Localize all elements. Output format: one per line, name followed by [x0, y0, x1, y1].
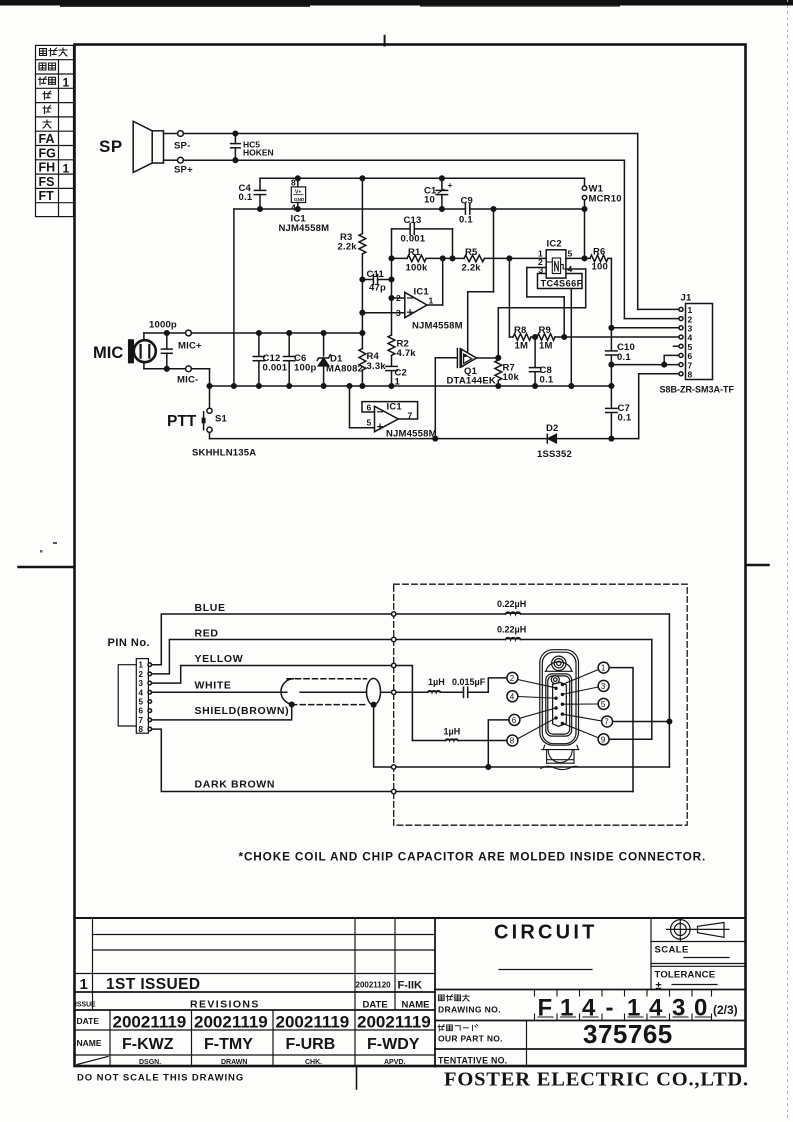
svg-text:-: -	[606, 995, 614, 1022]
fold tick left edge	[19, 566, 75, 568]
svg-text:DARK BROWN: DARK BROWN	[195, 779, 276, 791]
capacitor C12	[253, 333, 288, 386]
svg-text:20021119: 20021119	[357, 1013, 431, 1032]
microphone MIC	[93, 333, 156, 369]
wire PTT line y438.6	[210, 438, 639, 440]
node circle 6	[509, 714, 520, 725]
wire DARK BROWN	[152, 729, 633, 794]
approvals row	[139, 1059, 405, 1066]
resistor R7	[495, 360, 520, 386]
svg-text:F-WDY: F-WDY	[367, 1036, 420, 1053]
J1 pin 7	[611, 360, 692, 370]
wire BLUE	[152, 602, 670, 665]
tolerance cell	[435, 970, 746, 993]
terminal MIC-	[144, 366, 198, 386]
diagonal slash	[77, 1057, 108, 1065]
svg-text:0.1: 0.1	[617, 352, 631, 363]
capacitor HC5 HOKEN	[231, 131, 274, 162]
our part no row	[435, 1019, 746, 1067]
svg-text:C13: C13	[404, 215, 422, 226]
svg-text:20021120: 20021120	[356, 979, 391, 989]
J1 pin 5 stub	[674, 342, 693, 352]
pin 5 terminal	[148, 700, 152, 704]
projection symbol	[651, 918, 746, 942]
node circle 9	[598, 734, 609, 745]
svg-text:MIC+: MIC+	[178, 341, 202, 352]
svg-text:3: 3	[539, 265, 544, 275]
jumper W1 MCR10	[582, 178, 621, 258]
revision row 1ST ISSUED	[80, 976, 422, 993]
svg-text:5: 5	[568, 249, 573, 259]
resistor R9	[531, 325, 679, 352]
svg-text:(2/3): (2/3)	[713, 1003, 738, 1017]
svg-text:1M: 1M	[515, 341, 529, 352]
svg-text:NJM4558M: NJM4558M	[386, 429, 437, 440]
wire MIC- down to rail	[191, 369, 209, 408]
svg-text:MCR10: MCR10	[589, 194, 622, 205]
terminal SP-	[164, 131, 191, 152]
svg-text:PIN No.: PIN No.	[108, 637, 151, 649]
svg-text:F-URB: F-URB	[286, 1036, 336, 1053]
wire SP- line to J1 pin1 drop	[184, 133, 638, 135]
connector pin box	[118, 659, 148, 735]
leader lines circles to pins	[518, 670, 602, 739]
svg-text:4: 4	[139, 688, 144, 697]
svg-text:D2: D2	[546, 423, 559, 434]
svg-text:0.001: 0.001	[401, 234, 426, 245]
resistor R3	[338, 178, 366, 279]
junction dots V+ rail	[296, 176, 301, 181]
resistor R8	[509, 258, 531, 351]
svg-text:10k: 10k	[503, 372, 520, 383]
svg-text:RED: RED	[195, 628, 219, 640]
connector J1	[660, 293, 735, 395]
svg-text:3: 3	[396, 308, 401, 318]
svg-text:SHIELD(BROWN): SHIELD(BROWN)	[195, 705, 290, 717]
svg-text:R9: R9	[539, 325, 552, 336]
scan dotted line right edge	[787, 0, 789, 1122]
cable shield dashed	[281, 678, 381, 704]
svg-text:4: 4	[568, 264, 573, 274]
svg-text:100p: 100p	[294, 363, 316, 374]
pin 4 terminal	[148, 691, 152, 695]
svg-text:6: 6	[139, 707, 144, 716]
svg-text:NJM4558M: NJM4558M	[279, 223, 330, 234]
svg-text:V+: V+	[295, 190, 301, 196]
switch S1 PTT	[167, 408, 256, 458]
svg-text:FG: FG	[39, 146, 56, 160]
labels row	[75, 999, 429, 1011]
resistor R4	[359, 349, 386, 387]
wire circle1 to dark brown	[609, 668, 633, 792]
TITLEBLOCK	[75, 918, 749, 1091]
svg-text:SKHHLN135A: SKHHLN135A	[192, 448, 256, 459]
svg-text:1: 1	[63, 75, 70, 89]
wire R1 to R5	[426, 257, 464, 259]
SCHEMATIC_UPPER	[93, 121, 734, 460]
svg-text:20021119: 20021119	[113, 1013, 187, 1032]
svg-text:7: 7	[408, 411, 413, 421]
transistor Q1 DTA144EK	[435, 349, 498, 439]
svg-text:FH: FH	[39, 161, 56, 175]
svg-text:REVISIONS: REVISIONS	[190, 999, 260, 1011]
wire red drop to circle9	[609, 640, 652, 740]
svg-text:1µH: 1µH	[428, 677, 445, 687]
svg-text:20021119: 20021119	[276, 1013, 350, 1032]
speaker SP	[99, 121, 164, 172]
svg-text:PTT: PTT	[167, 413, 197, 430]
svg-text:TOLERANCE: TOLERANCE	[655, 970, 716, 981]
wire TC4S66F box to rail	[570, 289, 572, 387]
svg-text:NAME: NAME	[77, 1038, 102, 1048]
svg-text:R6: R6	[593, 247, 606, 258]
svg-text:6: 6	[512, 716, 517, 725]
svg-text:1: 1	[80, 976, 88, 993]
svg-text:9: 9	[601, 735, 606, 744]
svg-text:3: 3	[139, 679, 144, 688]
wire net rail209 to Q1 top	[468, 209, 494, 353]
svg-text:1: 1	[429, 296, 434, 306]
margin specks	[53, 542, 57, 544]
node circle 4	[507, 691, 518, 702]
wire GND rail y209 with C9 gap	[234, 208, 466, 210]
svg-text:SP: SP	[99, 137, 123, 156]
op-amp IC1 (a)	[360, 258, 463, 331]
resistor R1	[392, 247, 428, 274]
capacitor C4	[239, 178, 266, 209]
svg-text:0.001: 0.001	[263, 363, 288, 374]
svg-text:100k: 100k	[406, 263, 428, 274]
drawing no row	[435, 990, 746, 1022]
svg-text:R5: R5	[465, 247, 478, 258]
J1 pin 6	[662, 351, 693, 367]
svg-text:R8: R8	[514, 325, 527, 336]
scale cell	[651, 945, 746, 967]
svg-text:TC4S66F: TC4S66F	[541, 279, 583, 289]
node circle 8	[507, 735, 518, 746]
choke 0.22uH (red)	[497, 625, 526, 640]
svg-text:5: 5	[139, 698, 144, 707]
capacitor C1 electrolytic	[424, 178, 453, 209]
svg-text:GND: GND	[294, 197, 305, 202]
svg-text:J1: J1	[681, 293, 692, 304]
terminal SP+	[164, 157, 194, 175]
svg-text:MIC-: MIC-	[177, 375, 198, 386]
wire vertical x233.9 rail-to-rail	[233, 209, 235, 386]
plug pins	[554, 683, 564, 725]
svg-text:DRAWN: DRAWN	[221, 1059, 247, 1066]
svg-text:1: 1	[601, 664, 606, 673]
node circle 2	[507, 672, 518, 683]
svg-text:8: 8	[688, 370, 693, 380]
svg-text:F-TMY: F-TMY	[204, 1036, 253, 1053]
svg-text:ISSUE: ISSUE	[75, 999, 96, 1008]
dashed box molded connector	[394, 584, 688, 825]
node circle 5	[598, 698, 609, 709]
svg-text:NJM4558M: NJM4558M	[412, 321, 463, 332]
wire MIC+ rail	[191, 332, 362, 334]
svg-text:5: 5	[601, 700, 606, 709]
svg-text:1: 1	[139, 661, 144, 670]
J1 pin 1	[638, 134, 693, 316]
svg-text:SP-: SP-	[174, 141, 190, 152]
svg-text:4: 4	[510, 692, 515, 701]
wire inverting node x391.5	[391, 229, 393, 335]
pin 2 terminal	[148, 672, 152, 676]
J1 pin 3	[611, 324, 692, 334]
svg-text:2.2k: 2.2k	[338, 242, 358, 253]
svg-text:YELLOW: YELLOW	[195, 653, 244, 665]
capacitor C13	[392, 215, 453, 258]
svg-text:0.1: 0.1	[459, 215, 473, 226]
choke 1uH (white)	[428, 677, 464, 692]
svg-text:SCALE: SCALE	[655, 945, 689, 956]
svg-text:DATE: DATE	[77, 1016, 100, 1026]
svg-text:0.1: 0.1	[239, 192, 253, 203]
capacitor C11	[360, 269, 394, 294]
svg-text:+: +	[448, 180, 453, 190]
plug boot	[541, 745, 579, 769]
resistor R5	[462, 247, 485, 274]
op-amp power block IC1 pins 8/4	[279, 178, 330, 235]
svg-text:0.22µH: 0.22µH	[497, 599, 526, 609]
wire blue drop to circle7 line	[613, 614, 672, 767]
capacitor C9	[459, 196, 473, 226]
svg-text:DO NOT SCALE THIS DRAWING: DO NOT SCALE THIS DRAWING	[77, 1073, 244, 1084]
capacitor C6	[284, 333, 317, 386]
svg-text:2: 2	[139, 670, 144, 679]
svg-text:1µH: 1µH	[444, 727, 461, 737]
wire RED	[152, 628, 652, 674]
svg-text:1SS352: 1SS352	[537, 449, 572, 460]
date row	[77, 1013, 431, 1032]
wire IC2 pin5 to R6	[566, 257, 590, 259]
capacitor 0.015uF	[452, 677, 507, 697]
svg-text:FA: FA	[39, 132, 55, 146]
junction dots R1-R5 line	[389, 256, 394, 261]
J1 pin 2	[624, 160, 692, 324]
revisions grid	[75, 918, 436, 1067]
CIRCUIT cell	[494, 918, 651, 990]
capacitor C2	[386, 366, 407, 387]
svg-text:TENTATIVE NO.: TENTATIVE NO.	[438, 1056, 508, 1066]
svg-text:8: 8	[139, 725, 144, 734]
svg-text:APVD.: APVD.	[384, 1059, 405, 1066]
svg-text:1M: 1M	[539, 341, 553, 352]
choke 1uH (yellow branch)	[412, 727, 507, 741]
wire R6 down C10/C7 column x611.4	[609, 258, 614, 438]
svg-text:F-IIK: F-IIK	[398, 980, 422, 992]
svg-text:DTA144EK: DTA144EK	[447, 376, 496, 387]
svg-text:CIRCUIT: CIRCUIT	[494, 922, 598, 944]
capacitor C10	[606, 342, 635, 363]
node circle 7	[602, 716, 613, 727]
capacitor C8	[529, 337, 553, 386]
wire SHIELD(BROWN)	[152, 702, 670, 769]
node circle 3	[598, 680, 609, 691]
svg-text:375765: 375765	[583, 1019, 673, 1049]
wire circle6 to shield line	[488, 720, 509, 767]
SCHEMATIC_LOWER	[108, 584, 707, 863]
diode D1 zener	[317, 333, 363, 386]
node circle 1	[598, 662, 609, 673]
title block top edge	[75, 917, 746, 919]
svg-text:FS: FS	[39, 175, 55, 189]
svg-text:0.1: 0.1	[540, 375, 554, 386]
svg-text:S8B-ZR-SM3A-TF: S8B-ZR-SM3A-TF	[660, 385, 735, 395]
svg-text:BLUE: BLUE	[195, 602, 226, 614]
svg-text:2: 2	[396, 293, 401, 303]
analog switch IC2 TC4S66F	[538, 239, 583, 289]
wire x362.4 down to pin3 and MIC+ rail	[361, 280, 363, 349]
svg-text:WHITE: WHITE	[195, 680, 232, 692]
J1 pin 4	[679, 333, 693, 343]
svg-text:S1: S1	[215, 414, 228, 425]
diode D2 1SS352	[537, 423, 572, 460]
wire YELLOW	[152, 653, 413, 741]
svg-text:IC1: IC1	[414, 287, 430, 298]
capacitor 1000p	[149, 320, 177, 372]
svg-text:5: 5	[367, 418, 372, 428]
svg-text:8: 8	[510, 737, 515, 746]
pin 8 terminal	[148, 727, 152, 731]
svg-text:DRAWING NO.: DRAWING NO.	[438, 1005, 501, 1015]
svg-text:IC2: IC2	[547, 239, 562, 250]
svg-text:C9: C9	[461, 196, 474, 207]
svg-text:MA8082: MA8082	[326, 364, 363, 375]
wire SP+ line to J1 pin2 drop	[184, 159, 625, 161]
name row	[77, 1036, 420, 1053]
svg-text:OUR PART NO.: OUR PART NO.	[438, 1034, 503, 1044]
wire IC2 pin3 path to R9 junction	[527, 268, 564, 338]
choke 0.22uH (blue)	[497, 599, 526, 614]
svg-text:HOKEN: HOKEN	[243, 148, 274, 158]
wire V+ rail y178	[260, 177, 585, 179]
svg-text:0.22µH: 0.22µH	[497, 625, 526, 635]
fold tick top center	[384, 36, 386, 46]
svg-text:R1: R1	[408, 247, 421, 258]
svg-text:*CHOKE COIL AND CHIP CAPACITOR: *CHOKE COIL AND CHIP CAPACITOR ARE MOLDE…	[239, 850, 707, 864]
pin 6 terminal	[148, 709, 152, 713]
svg-text:SP+: SP+	[174, 165, 193, 176]
svg-text:1: 1	[63, 161, 70, 175]
fold tick right edge	[746, 564, 769, 566]
wire net Q1 out to IC2 pin4	[496, 269, 586, 360]
svg-text:MIC: MIC	[93, 344, 123, 362]
fold tick bottom center	[356, 1066, 358, 1089]
svg-text:20021119: 20021119	[194, 1013, 268, 1032]
svg-text:FOSTER ELECTRIC CO.,LTD.: FOSTER ELECTRIC CO.,LTD.	[444, 1069, 749, 1091]
svg-text:6: 6	[367, 403, 372, 413]
svg-text:7: 7	[604, 718, 609, 727]
svg-text:4.7k: 4.7k	[397, 348, 417, 359]
op-amp IC1 (b) buffer	[350, 386, 437, 440]
svg-text:C11: C11	[367, 269, 385, 280]
wire bias rail y386	[210, 385, 612, 387]
pin 3 terminal	[148, 681, 152, 685]
svg-text:1ST ISSUED: 1ST ISSUED	[106, 976, 200, 993]
wire WHITE	[152, 680, 428, 695]
terminal MIC+	[144, 330, 202, 351]
resistor R6	[590, 247, 611, 273]
svg-text:DATE: DATE	[363, 1000, 388, 1011]
svg-text:100: 100	[592, 262, 608, 273]
wire R5 to IC2 pin1	[484, 257, 546, 259]
svg-text:3.3k: 3.3k	[367, 361, 387, 372]
svg-text:47p: 47p	[369, 283, 386, 294]
resistor R2	[388, 335, 416, 366]
svg-text:DSGN.: DSGN.	[139, 1059, 161, 1066]
svg-text:0.015µF: 0.015µF	[452, 677, 486, 687]
svg-text:10: 10	[424, 195, 435, 206]
svg-text:CHK.: CHK.	[305, 1059, 322, 1066]
capacitor C7	[606, 403, 632, 424]
drawing border frame	[75, 45, 746, 1067]
svg-text:2.2k: 2.2k	[462, 263, 482, 274]
scan bar top edge	[0, 0, 793, 6]
distribution table	[36, 45, 74, 216]
pin 7 terminal	[148, 718, 152, 722]
svg-text:2: 2	[510, 674, 515, 683]
svg-text:F-KWZ: F-KWZ	[122, 1036, 174, 1053]
svg-text:1000p: 1000p	[149, 320, 177, 331]
svg-text:IC1: IC1	[387, 402, 403, 413]
svg-text:NAME: NAME	[402, 1000, 430, 1011]
J1 pin 8	[639, 370, 693, 439]
svg-text:7: 7	[139, 716, 144, 725]
svg-text:0.1: 0.1	[618, 413, 632, 424]
svg-text:3: 3	[601, 682, 606, 691]
junction dots GND rail	[258, 207, 263, 212]
pin 1 terminal	[148, 663, 152, 667]
svg-text:FT: FT	[39, 189, 55, 203]
plug connector body	[540, 650, 579, 746]
